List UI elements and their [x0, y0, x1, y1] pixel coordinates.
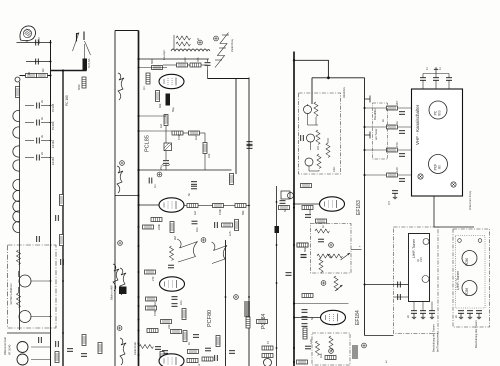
wire: T2 anode stub	[139, 204, 160, 206]
arrow	[341, 253, 351, 260]
zig extra	[326, 143, 330, 157]
resistor	[145, 270, 156, 274]
resistor	[235, 204, 246, 208]
svg-text:EF183: EF183	[356, 200, 362, 215]
wire: L7 bottom elbow	[365, 335, 394, 337]
tube heater loop 8	[13, 211, 20, 222]
tube heater loop 5	[13, 179, 20, 190]
wire: main bus L6	[293, 52, 295, 366]
capacitor	[305, 346, 311, 349]
capacitor	[286, 273, 292, 276]
svg-text:10n: 10n	[195, 227, 199, 232]
capacitor	[318, 239, 324, 242]
plus node	[198, 40, 203, 45]
svg-text:am Tuner: am Tuner	[374, 129, 378, 140]
wire: row y61.5	[26, 61, 51, 63]
svg-text:Bandfilter: Bandfilter	[373, 108, 377, 120]
svg-text:PCL85: PCL85	[145, 135, 151, 152]
waveform sym1	[118, 73, 124, 100]
resistor	[297, 243, 308, 247]
svg-text:EF184: EF184	[355, 310, 361, 325]
capacitor	[56, 215, 59, 221]
wire y303	[294, 303, 349, 305]
tube PC86	[462, 251, 477, 266]
capacitor	[81, 354, 87, 357]
svg-text:R1: R1	[27, 71, 31, 75]
zig	[319, 258, 323, 272]
waveform mid1	[177, 239, 198, 262]
resistor	[55, 352, 59, 363]
svg-text:22k: 22k	[167, 324, 171, 329]
wire t2 anode row	[184, 205, 249, 207]
junction circle left	[15, 77, 20, 82]
waveform sym2	[117, 166, 123, 193]
wire: y78 trunk	[312, 77, 365, 79]
resistor vertical zig	[170, 246, 174, 260]
resistor row y75 a	[26, 74, 37, 78]
wire: bottom left row	[7, 332, 51, 334]
resistor	[164, 115, 168, 126]
svg-text:100: 100	[308, 209, 312, 214]
capacitor row y61	[36, 59, 39, 65]
wire: drop into tuner filter box	[311, 78, 313, 104]
resistor	[279, 206, 290, 210]
svg-text:2k7: 2k7	[395, 100, 399, 105]
resistor zig DB1a	[17, 250, 21, 264]
capacitor	[280, 201, 286, 204]
svg-text:+: +	[359, 244, 361, 248]
wire	[394, 296, 409, 298]
svg-text:2n: 2n	[454, 315, 458, 318]
capacitor p2	[399, 131, 405, 134]
cap bottom left of box	[392, 191, 398, 194]
wire: T5 grid feed	[294, 203, 320, 205]
resistor	[325, 356, 336, 360]
cap hatched	[164, 143, 172, 151]
node lightning	[214, 36, 219, 41]
capacitor vc	[446, 78, 452, 81]
svg-text:R2: R2	[41, 68, 45, 72]
wire + out	[351, 249, 362, 251]
black cap t1	[166, 94, 171, 106]
resistor	[182, 309, 186, 320]
svg-text:56k: 56k	[303, 247, 307, 252]
wire: row y170	[139, 169, 232, 171]
comp cluster	[281, 191, 290, 199]
lightning sawtooth top	[215, 33, 229, 68]
capacitor vb	[433, 78, 439, 81]
coil circle	[264, 359, 272, 366]
resistor	[202, 357, 213, 361]
svg-text:120: 120	[309, 339, 313, 344]
svg-text:0,1: 0,1	[153, 184, 157, 188]
svg-text:220k: 220k	[157, 224, 161, 230]
wire: vertical x236	[235, 79, 237, 175]
caps below DB6	[411, 311, 417, 314]
capacitor	[215, 355, 218, 361]
capacitor	[191, 182, 197, 185]
svg-text:Si 0,8A: Si 0,8A	[87, 58, 91, 68]
svg-text:80: 80	[438, 165, 442, 169]
svg-text:5n: 5n	[187, 193, 191, 196]
wire: frame left edge	[114, 31, 116, 366]
svg-text:bei Transistoren: bei Transistoren	[436, 333, 440, 352]
wire: main bus L5	[138, 31, 140, 366]
svg-text:PC88: PC88	[465, 288, 469, 296]
resistor NTC	[82, 77, 86, 88]
resistor	[230, 174, 234, 185]
resistor zig DB1b	[17, 293, 21, 307]
wire: left bus L1	[50, 40, 52, 366]
capacitor	[56, 341, 59, 347]
wire: UHF feed y284.5	[365, 284, 409, 286]
coil circle b	[17, 354, 28, 365]
tube heater loop 3	[13, 146, 20, 157]
wire: heater chain line	[19, 82, 21, 330]
zig diag	[329, 336, 333, 350]
waveform sym3	[113, 264, 119, 291]
svg-text:PC86: PC86	[465, 258, 469, 266]
waveform sym4	[120, 268, 126, 295]
waveform sym5	[120, 338, 126, 365]
capacitor	[162, 351, 168, 354]
svg-text:1n5: 1n5	[228, 231, 232, 236]
node sym5	[117, 326, 122, 331]
svg-text:UHF-Tuner: UHF-Tuner	[456, 270, 460, 290]
coil barcode	[244, 302, 250, 316]
caps above VHF box	[423, 73, 449, 75]
resistor	[183, 331, 187, 342]
waveform mid2	[212, 242, 228, 264]
arrow diag	[335, 285, 343, 291]
cell2 zig	[316, 130, 320, 144]
capacitor p4	[399, 179, 405, 182]
wires t1 area	[139, 115, 206, 171]
resistor	[60, 235, 64, 246]
svg-text:5n: 5n	[283, 209, 287, 212]
resistor	[147, 329, 158, 333]
capacitor h1	[37, 103, 40, 109]
svg-text:0,5: 0,5	[387, 201, 391, 205]
resistor	[302, 206, 313, 210]
svg-text:560: 560	[150, 59, 154, 64]
resistor	[143, 225, 154, 229]
svg-text:PCF80: PCF80	[207, 310, 213, 327]
resistor	[161, 320, 172, 324]
small circles DB7 top	[458, 239, 462, 243]
resistor	[216, 336, 220, 347]
wire: vertical x249	[248, 78, 250, 366]
tube PCF80v	[429, 155, 448, 174]
tube heater loop 4	[13, 160, 20, 171]
wire: frame top edge	[115, 30, 139, 32]
dashed box DB6	[394, 227, 439, 334]
zig	[317, 254, 331, 258]
capacitor h2	[37, 120, 40, 126]
resistor t1 left	[146, 73, 150, 84]
capacitor	[149, 178, 152, 184]
wire: right section line L7	[364, 78, 366, 336]
resistor	[188, 350, 199, 354]
zig	[315, 229, 329, 233]
circle u1	[423, 239, 429, 245]
node sym1	[120, 161, 125, 166]
wire bottom	[31, 346, 51, 348]
resistor	[297, 243, 308, 247]
resistor	[316, 219, 327, 223]
wire stubs heater caps	[25, 106, 51, 158]
capacitor row y42	[36, 40, 39, 46]
wire: T6 grid feed	[294, 317, 321, 319]
capacitor	[67, 349, 73, 352]
node	[201, 238, 206, 243]
antenna T a	[365, 96, 371, 103]
capacitor va	[420, 78, 426, 81]
svg-text:UHF-Tuner: UHF-Tuner	[412, 238, 416, 258]
resistor	[146, 306, 157, 310]
node	[321, 281, 326, 286]
resistor	[235, 220, 239, 231]
resistor	[303, 328, 307, 339]
antenna T b	[365, 132, 371, 139]
circle u2	[422, 276, 429, 283]
cell2 comp	[301, 135, 304, 141]
resistor	[170, 222, 174, 233]
svg-text:47: 47	[266, 341, 270, 344]
svg-text:PCF80: PCF80	[51, 121, 55, 130]
svg-text:VHF - Kanalschalter: VHF - Kanalschalter	[415, 104, 420, 145]
fuse black box B1	[83, 59, 88, 71]
resistor	[246, 317, 250, 328]
tube heater loop 1	[13, 110, 20, 121]
svg-text:1k8: 1k8	[319, 353, 323, 358]
resistor p1	[387, 106, 398, 110]
svg-text:1n: 1n	[438, 66, 442, 70]
tube heater loop 7	[13, 201, 20, 212]
cell2 circle	[307, 134, 315, 142]
capacitor	[155, 347, 161, 350]
node	[234, 295, 239, 300]
cell3 zig	[317, 154, 321, 168]
wire: speaker coil row y59	[139, 58, 210, 60]
svg-text:Zeilentrafo: Zeilentrafo	[133, 341, 137, 355]
svg-text:25µ: 25µ	[159, 165, 163, 170]
wire: speaker row	[17, 42, 51, 44]
resistor	[189, 131, 200, 135]
node	[362, 343, 367, 348]
svg-text:0,1: 0,1	[142, 86, 146, 90]
svg-text:5n: 5n	[310, 317, 314, 320]
wire bottom2	[31, 359, 51, 361]
resistor	[172, 131, 183, 135]
svg-text:470k: 470k	[153, 310, 157, 316]
wire audio	[139, 35, 208, 70]
resistor zig	[139, 345, 153, 349]
cell1 zig	[314, 102, 318, 116]
svg-text:2n: 2n	[406, 315, 410, 318]
capacitor h3	[37, 138, 40, 144]
svg-text:PC 180: PC 180	[65, 95, 69, 106]
resistor	[213, 204, 224, 208]
resistor	[187, 359, 198, 363]
capacitor c1	[205, 63, 211, 66]
cell1 circle	[304, 106, 312, 114]
capacitor	[193, 335, 199, 338]
svg-text:Bildrohr AW: Bildrohr AW	[110, 285, 114, 300]
capacitor p1	[399, 112, 405, 115]
tube heater loop 2	[13, 127, 20, 138]
resistor left column	[16, 87, 20, 98]
svg-text:220: 220	[183, 57, 187, 62]
svg-text:Abstimm.: Abstimm.	[342, 87, 346, 98]
svg-text:470: 470	[395, 142, 399, 147]
tube heater loop 6	[13, 190, 20, 201]
resistor	[187, 204, 198, 208]
resistor	[203, 143, 207, 154]
capacitor	[305, 215, 311, 218]
tube heater loop 9	[13, 221, 20, 232]
caps right pair	[247, 142, 253, 145]
resistor	[302, 294, 313, 298]
cell3 circle	[305, 158, 313, 166]
wire DB1	[19, 271, 51, 317]
dashed box DB5	[373, 103, 388, 159]
svg-text:NSF: NSF	[77, 84, 81, 90]
capacitor	[192, 221, 198, 224]
screw a	[418, 174, 423, 179]
svg-text:10k: 10k	[207, 153, 211, 158]
node	[329, 349, 334, 354]
resistor r1	[152, 66, 163, 70]
resistor top chain2	[176, 42, 190, 46]
zig v	[316, 341, 320, 355]
speaker coil wavy	[171, 49, 210, 51]
svg-text:Zeilenfreq.: Zeilenfreq.	[230, 39, 234, 52]
node sym4	[118, 241, 123, 246]
resistor	[171, 330, 182, 334]
capacitor	[229, 351, 235, 354]
svg-text:27k: 27k	[151, 276, 155, 281]
svg-text:Antennen-Freq.: Antennen-Freq.	[468, 190, 472, 210]
svg-text:PCL85: PCL85	[51, 103, 55, 112]
resistor p4	[387, 173, 398, 177]
capacitor	[205, 348, 211, 351]
svg-text:EF184: EF184	[51, 157, 55, 165]
svg-text:1n: 1n	[425, 66, 429, 70]
tiny value labels scattered	[27, 57, 458, 366]
svg-text:7p: 7p	[416, 259, 420, 262]
resistor row y75 b	[37, 74, 48, 78]
capacitor	[172, 304, 178, 307]
resistor top chain	[176, 36, 190, 40]
RC pairs left of VHF box	[365, 108, 412, 175]
wire speaker stub	[26, 40, 28, 43]
capacitor h4	[37, 155, 40, 161]
dotted inner box	[456, 236, 486, 309]
caps on feed wire	[398, 282, 401, 288]
svg-text:7k8: 7k8	[196, 57, 200, 62]
capacitor	[39, 337, 42, 343]
wire: heavy row y70.5	[51, 70, 87, 72]
resistor	[262, 354, 273, 358]
wire: left bus L2	[62, 71, 64, 366]
resistor	[146, 297, 157, 301]
dark box frame	[119, 287, 127, 295]
resistor	[297, 360, 308, 364]
capacitor	[215, 222, 218, 228]
svg-text:50µ: 50µ	[171, 107, 175, 112]
resistor below DB2	[301, 184, 312, 188]
UHF tuner solid box	[409, 234, 430, 302]
tube PC88	[462, 281, 477, 296]
capacitor	[37, 236, 40, 242]
ground vb	[434, 68, 438, 73]
capacitor	[301, 255, 307, 258]
resistor	[262, 346, 273, 350]
capacitor el	[163, 161, 169, 164]
dashed box DB4 sound IF	[312, 333, 350, 365]
resistor	[98, 343, 102, 354]
wire: y77.5 segment mid	[208, 78, 250, 80]
capacitor	[61, 259, 64, 265]
resistor	[257, 320, 268, 324]
resistor r2	[177, 63, 188, 67]
wire: UHF top link	[434, 196, 474, 227]
wire: video line x276	[276, 186, 278, 366]
svg-text:470k: 470k	[218, 209, 222, 215]
capacitor stack	[168, 265, 174, 268]
svg-text:900: 900	[438, 110, 442, 116]
deflection coil DB1b	[19, 311, 31, 323]
wires DB2	[308, 104, 329, 171]
wire: B+ elbow to bus	[294, 60, 328, 78]
svg-text:Beschaltung des Tuners: Beschaltung des Tuners	[474, 319, 478, 348]
screw b	[451, 182, 456, 187]
dashed box DB7	[453, 229, 490, 327]
coil barcode2	[352, 346, 358, 358]
svg-text:mit 59cm-Bildrohr: mit 59cm-Bildrohr	[9, 283, 13, 305]
svg-text:AFC: AFC	[332, 167, 336, 172]
resistor	[222, 223, 233, 227]
svg-text:10n: 10n	[179, 300, 183, 305]
capacitor stack	[302, 310, 308, 313]
tube PC900	[429, 101, 447, 119]
svg-text:120: 120	[395, 167, 399, 172]
svg-text:Ablenk-Einheit: Ablenk-Einheit	[3, 337, 7, 355]
wire: vertical x225	[225, 240, 227, 366]
resistor p3	[387, 148, 398, 152]
resistor	[82, 335, 86, 346]
svg-text:Lautspr.: Lautspr.	[162, 49, 166, 60]
wire: cap drop stub	[207, 70, 209, 79]
deflection coil DB1a	[19, 275, 31, 287]
wire: row y195.5	[115, 195, 139, 197]
coil circle a	[17, 342, 28, 353]
capacitor	[301, 255, 307, 258]
node	[329, 243, 334, 248]
svg-text:56k: 56k	[241, 210, 245, 215]
svg-text:470k: 470k	[177, 134, 181, 140]
resistor r3	[190, 63, 201, 67]
svg-text:220V: 220V	[37, 37, 41, 44]
svg-text:Beschaltung des Tuners: Beschaltung des Tuners	[432, 323, 436, 352]
capacitor	[172, 297, 178, 300]
resistor	[151, 218, 162, 222]
resistor	[160, 352, 164, 363]
capacitor p3	[399, 154, 405, 157]
svg-text:EF183: EF183	[51, 140, 55, 148]
svg-text:82k: 82k	[158, 103, 162, 108]
